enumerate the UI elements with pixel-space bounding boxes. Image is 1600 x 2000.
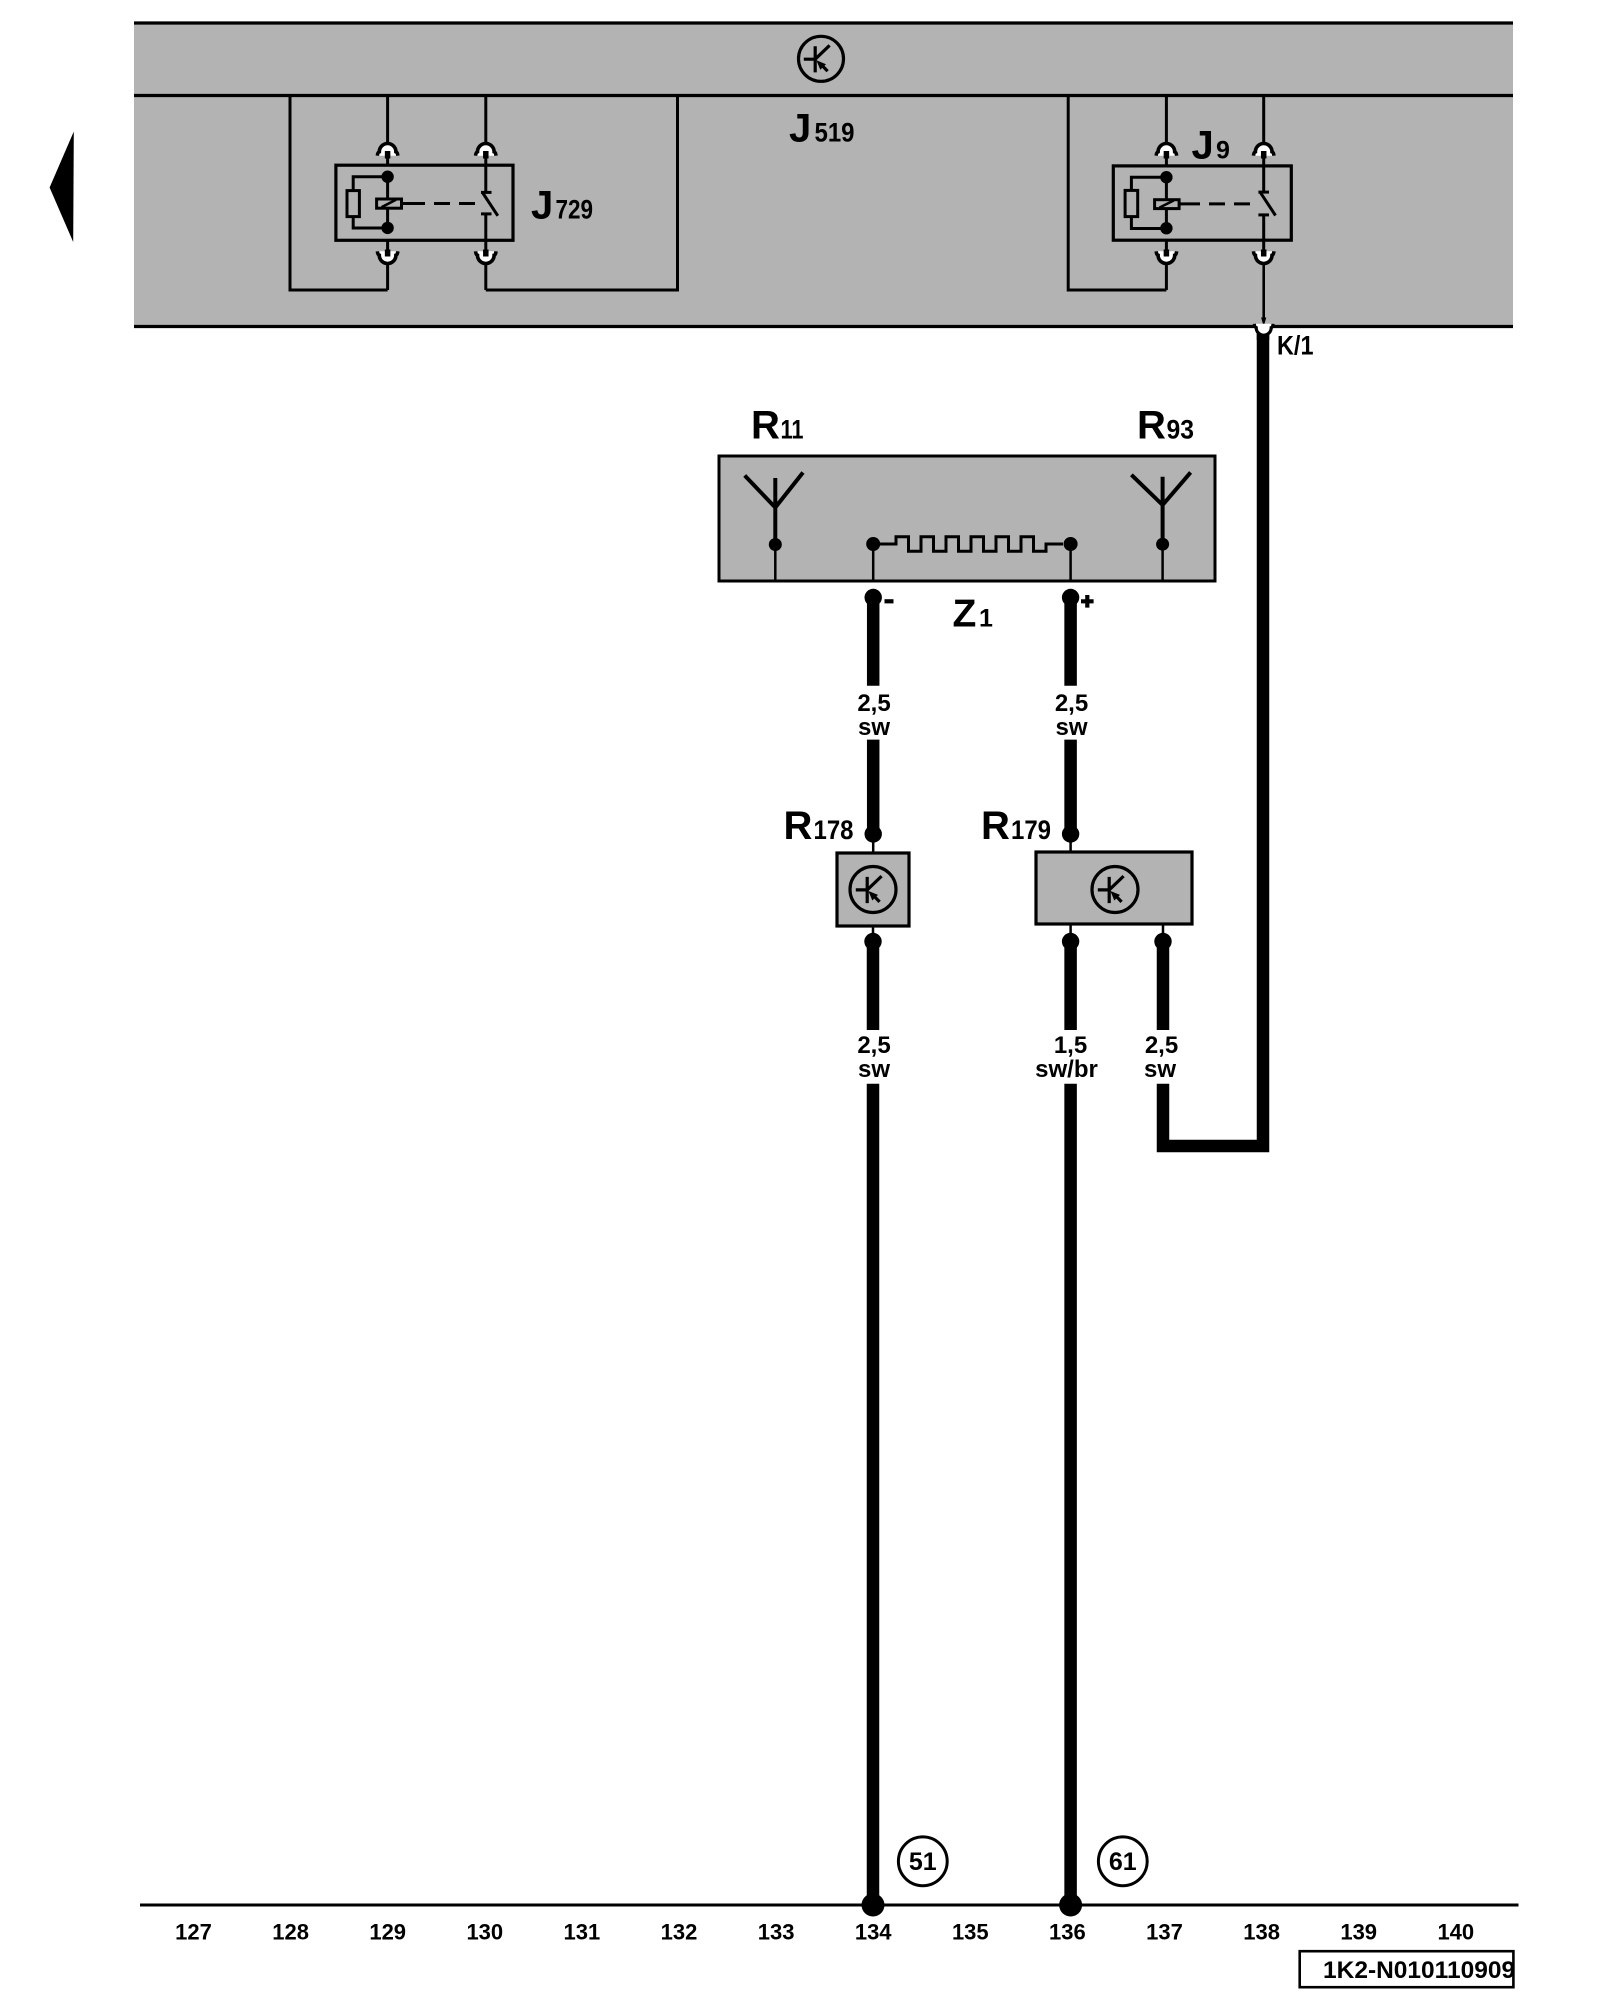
J729 relay coil	[377, 177, 402, 228]
svg-text:sw: sw	[1144, 1056, 1176, 1083]
svg-text:127: 127	[175, 1920, 212, 1945]
antenna R11 symbol	[745, 473, 803, 582]
svg-text:128: 128	[272, 1920, 309, 1945]
svg-text:138: 138	[1243, 1920, 1280, 1945]
connector K/1 on J519 housing edge	[1254, 324, 1273, 340]
svg-text:1: 1	[979, 605, 993, 633]
svg-text:51: 51	[909, 1848, 937, 1876]
J729 coil top junction node	[381, 171, 393, 183]
svg-text:130: 130	[466, 1920, 503, 1945]
wire 1,5 sw/br: R179 to track 136 (long segment)	[1064, 1084, 1077, 1905]
R178 bottom pin	[864, 926, 881, 950]
antenna R93 symbol	[1131, 472, 1190, 581]
J9 relay coil	[1155, 177, 1180, 228]
wire: J519 internal to J729 pin 2	[484, 96, 487, 144]
svg-text:R: R	[981, 804, 1010, 848]
svg-text:131: 131	[564, 1920, 601, 1945]
J9 actuation dashed link	[1179, 202, 1255, 205]
svg-text:2,5: 2,5	[857, 1032, 890, 1059]
svg-text:J: J	[531, 184, 553, 228]
current track rail (bottom)	[140, 1904, 1519, 1907]
svg-text:2,5: 2,5	[1055, 690, 1088, 717]
svg-text:134: 134	[855, 1920, 892, 1945]
wire label 2,5 sw (K/1 branch)	[1144, 1032, 1178, 1083]
svg-text:sw: sw	[1055, 714, 1087, 741]
svg-text:J: J	[789, 107, 811, 151]
label Z1	[953, 593, 994, 636]
ground reference 51 (circled)	[898, 1837, 947, 1886]
svg-text:61: 61	[1109, 1848, 1137, 1876]
J729 switch contact	[481, 192, 498, 215]
wire: J519 internal to J9 pin 1	[1165, 96, 1168, 144]
wire label 2,5 sw (left upper)	[857, 690, 890, 741]
Z1 heating element (meander)	[866, 537, 1077, 551]
node: wire end on track 134	[862, 1894, 885, 1917]
wire label 1,5 sw/br	[1035, 1032, 1098, 1083]
wire: J729 pin1 to enclosure bottom	[386, 263, 389, 290]
svg-text:2,5: 2,5	[1145, 1032, 1178, 1059]
label R93	[1137, 404, 1194, 448]
svg-text:sw: sw	[858, 714, 890, 741]
page-edge arrow (left margin)	[50, 132, 74, 243]
wire: J9 pin2 down to J519 edge connector K/1	[1261, 263, 1266, 326]
Z1 plus terminal	[1062, 544, 1094, 608]
svg-text:140: 140	[1437, 1920, 1474, 1945]
svg-text:139: 139	[1340, 1920, 1377, 1945]
svg-text:K/1: K/1	[1277, 331, 1314, 361]
J9 suppression resistor (parallel to coil)	[1125, 177, 1166, 228]
interference filter R178 box	[837, 853, 909, 926]
wire label 2,5 sw (right upper)	[1055, 690, 1088, 741]
J729 suppression resistor (parallel to coil)	[347, 177, 388, 228]
wire 2,5 sw: Z1 plus to R179 (lower segment)	[1062, 740, 1079, 852]
label J9	[1192, 123, 1230, 167]
current track numbers 127-140	[175, 1920, 1474, 1945]
svg-text:9: 9	[1216, 136, 1230, 164]
wire label 2,5 sw (left lower)	[857, 1032, 890, 1083]
label J519	[789, 107, 855, 151]
svg-text:1K2-N010110909: 1K2-N010110909	[1323, 1957, 1515, 1984]
terminal 30 symbol: circle with K inside (top of J519)	[799, 36, 844, 81]
R179 left bottom pin	[1062, 924, 1079, 950]
J9 pin 1 top plug connector	[1156, 144, 1176, 166]
wire 2,5 sw: R178 down (upper segment)	[867, 942, 880, 1031]
svg-text:137: 137	[1146, 1920, 1183, 1945]
relay J729 body box	[336, 165, 513, 240]
svg-text:729: 729	[556, 195, 594, 225]
svg-text:93: 93	[1167, 415, 1195, 445]
svg-text:11: 11	[781, 415, 804, 445]
J729 pin 1 bottom plug connector	[377, 240, 397, 263]
svg-text:Z: Z	[953, 593, 977, 636]
label R11	[751, 404, 804, 448]
svg-text:129: 129	[369, 1920, 406, 1945]
J729 pin 1 top plug connector	[377, 144, 397, 166]
control unit J519 box (onboard supply control unit band)	[134, 23, 1513, 327]
label J729	[531, 184, 593, 228]
svg-text:135: 135	[952, 1920, 989, 1945]
J9 switch contact	[1258, 192, 1275, 215]
wire 1,5 sw/br: R179 down (upper segment)	[1064, 942, 1077, 1031]
svg-text:sw/br: sw/br	[1035, 1056, 1098, 1083]
J9 pin 2 top plug connector	[1254, 144, 1274, 193]
heated rear window Z1 box (with antennas)	[719, 456, 1215, 581]
wire 2,5 sw: Z1 minus to R178 (lower segment)	[865, 740, 882, 853]
J729 actuation dashed link	[402, 202, 479, 205]
svg-text:136: 136	[1049, 1920, 1086, 1945]
svg-text:R: R	[1137, 404, 1166, 448]
svg-text:1,5: 1,5	[1054, 1032, 1087, 1059]
svg-text:133: 133	[758, 1920, 795, 1945]
node: wire end on track 136	[1059, 1894, 1082, 1917]
ground reference 61 (circled)	[1098, 1837, 1147, 1886]
wire 2,5 sw: Z1 minus to R178 (upper segment)	[867, 598, 880, 686]
label R179	[981, 804, 1051, 848]
Z1 minus terminal	[865, 544, 894, 606]
J9 coil bottom junction node	[1160, 222, 1172, 234]
svg-text:132: 132	[661, 1920, 698, 1945]
relay J9 enclosure (sub box inside J519)	[1068, 96, 1166, 291]
label K/1	[1277, 331, 1314, 361]
wire 2,5 sw: R179 right pin down (upper segment)	[1157, 942, 1170, 1031]
svg-text:J: J	[1192, 123, 1214, 167]
wire 2,5 sw: from R179 right pin via corner up to connector K/1	[1163, 334, 1263, 1146]
svg-text:179: 179	[1011, 815, 1051, 845]
wire 2,5 sw: Z1 plus to R179 (upper segment)	[1064, 598, 1077, 686]
label R178	[784, 804, 854, 848]
J9 pin 1 bottom plug connector	[1156, 240, 1176, 263]
svg-text:2,5: 2,5	[857, 690, 890, 717]
wire: J519 internal to J9 pin 2	[1262, 96, 1265, 144]
svg-text:sw: sw	[858, 1056, 890, 1083]
svg-text:519: 519	[815, 118, 855, 148]
interference filter R179 box	[1036, 852, 1192, 924]
J729 coil bottom junction node	[381, 222, 393, 234]
wire: J729 pin2 to enclosure bottom	[484, 263, 487, 290]
wire: J519 internal to J729 pin 1	[386, 96, 389, 144]
J9 pin 2 bottom plug connector	[1254, 215, 1274, 264]
J729 pin 2 bottom plug connector	[476, 214, 496, 264]
wire: J9 pin1 to enclosure bottom	[1165, 263, 1168, 290]
J9 coil top junction node	[1160, 171, 1172, 183]
J729 pin 2 top plug connector	[476, 144, 496, 193]
wire 2,5 sw: R178 to track 134 (long segment)	[867, 1084, 880, 1905]
R179 right bottom pin	[1154, 924, 1171, 950]
svg-text:R: R	[784, 804, 813, 848]
relay J9 body box	[1113, 166, 1291, 240]
svg-text:R: R	[751, 404, 780, 448]
relay J729 enclosure (dashed-in sub box inside J519)	[290, 96, 678, 291]
svg-text:178: 178	[814, 815, 854, 845]
diagram id box 1K2-N010110909	[1300, 1951, 1515, 1987]
